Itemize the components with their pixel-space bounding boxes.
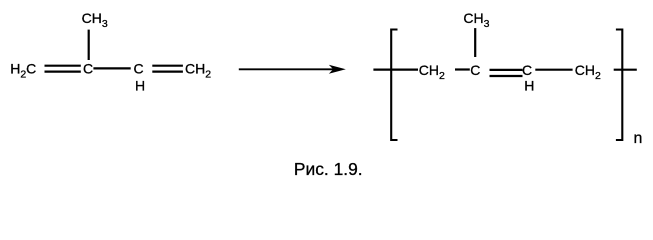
svg-text:C: C	[133, 60, 143, 76]
svg-text:Рис. 1.9.: Рис. 1.9.	[294, 159, 363, 179]
svg-text:H: H	[524, 78, 534, 94]
double bond H2C=C	[45, 66, 81, 72]
svg-text:H: H	[135, 78, 145, 94]
left bracket of repeat unit	[391, 30, 397, 141]
reaction arrow head	[329, 65, 346, 74]
bond exiting right bracket	[614, 69, 637, 71]
bond C-CH2 (polymer)	[535, 69, 572, 71]
bond entering left bracket	[373, 68, 418, 70]
double bond C=CH2 (left monomer)	[152, 66, 183, 72]
bond CH2-C (polymer)	[455, 68, 470, 70]
right bracket of repeat unit	[616, 30, 622, 141]
reaction arrow line	[239, 68, 340, 70]
double bond C=C (polymer)	[490, 70, 523, 76]
bond C-C (left monomer single)	[93, 67, 130, 69]
bond C-CH3 (left monomer vertical)	[88, 30, 90, 60]
svg-text:C: C	[83, 60, 93, 76]
svg-text:C: C	[522, 62, 532, 78]
bond C-CH3 (polymer vertical)	[474, 28, 476, 57]
svg-text:n: n	[634, 130, 643, 147]
svg-text:C: C	[470, 62, 480, 78]
